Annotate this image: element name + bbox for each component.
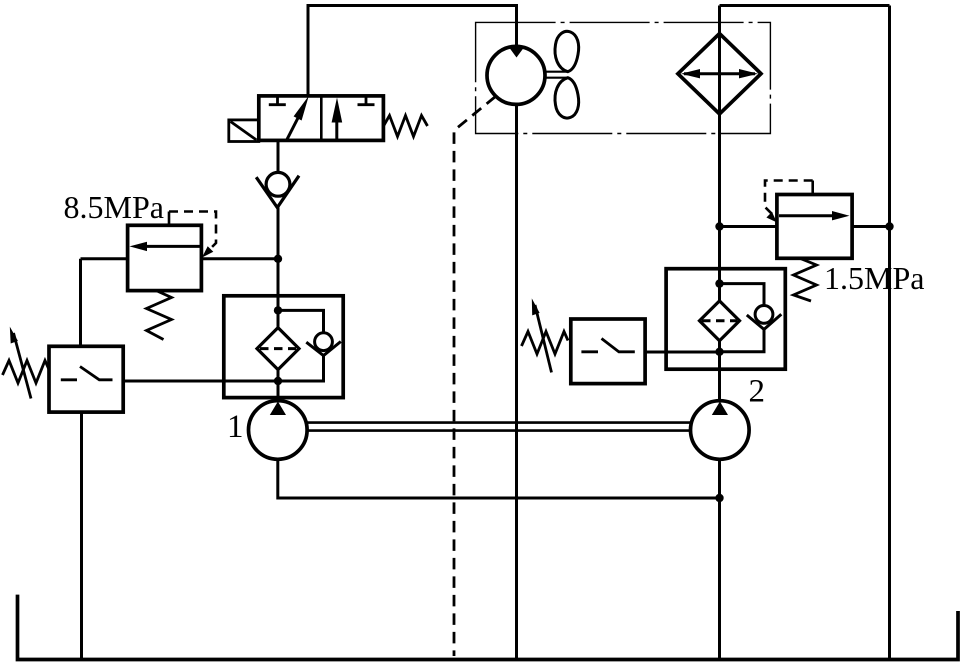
pressure switch PS1 contacts <box>61 367 113 380</box>
wire RV2 left port <box>720 225 777 228</box>
valve V1 solenoid <box>229 120 259 142</box>
junction F (filter F2 top) <box>715 279 723 287</box>
motor M (fan drive) <box>487 46 545 104</box>
svg-text:1: 1 <box>227 409 244 445</box>
filter F2 bypass check valve <box>755 306 773 324</box>
wire RV2 right port to frame <box>852 225 889 228</box>
wire pump1 suction <box>278 459 720 498</box>
filter F2 bypass branch wire <box>720 284 765 306</box>
junction G (filter F2 bottom) <box>715 348 723 356</box>
pressure switch PS2 contacts <box>581 339 634 352</box>
junction C (filter F1 bottom) <box>274 377 282 385</box>
wire RV1 right port to junction A <box>201 257 278 260</box>
pressure switch PS2 adjust arrow <box>535 305 552 372</box>
relief valve RV2 body <box>777 195 852 259</box>
svg-text:1.5MPa: 1.5MPa <box>824 260 924 296</box>
wire PS2 right to filter F2 junction <box>645 351 719 354</box>
filter F1 bypass check valve <box>315 333 333 351</box>
wire top-right (cooler top to right frame) <box>720 4 890 7</box>
junction B (filter F1 top) <box>274 306 282 314</box>
relief valve RV2 arrow <box>779 214 835 217</box>
pressure switch PS2 spring <box>522 332 569 355</box>
svg-text:2: 2 <box>749 374 766 410</box>
enclosure chain-line box <box>476 22 771 133</box>
directional valve V1 body <box>259 96 384 140</box>
fan propeller <box>555 31 579 71</box>
pump 2 <box>691 401 750 460</box>
filter F1 bypass branch wire <box>278 310 324 333</box>
tank <box>18 595 959 660</box>
wire valve to check valve <box>277 140 280 172</box>
wire check valve to junction <box>277 208 280 328</box>
relief valve RV1 pilot line (dashed) <box>168 212 171 226</box>
valve V1 left-cell flow arrow <box>287 112 301 140</box>
junction A (relief tee) <box>274 255 282 263</box>
junction D (RV2 tee on cooler line) <box>715 222 723 230</box>
wire cooler vertical <box>718 6 721 301</box>
junction E (right frame) <box>885 222 893 230</box>
wire filter F2 vertical <box>718 339 721 401</box>
filter F2 element <box>700 301 740 341</box>
relief valve RV1 body <box>128 225 202 290</box>
valve V1 right-cell flow arrow <box>335 118 338 140</box>
relief valve RV1 arrow <box>143 245 201 248</box>
valve V1 return spring <box>384 116 428 137</box>
filter unit F2 box <box>666 269 785 370</box>
wire right frame vertical <box>888 6 891 660</box>
pressure switch PS1 adjust arrow <box>14 333 32 399</box>
relief valve RV1 spring <box>147 291 172 340</box>
drive shaft pumps 1-2 <box>307 423 691 431</box>
wire PS1 right to filter junction <box>123 380 278 383</box>
wire PS1 down to tank <box>80 412 83 659</box>
cooler (heat exchanger) <box>678 34 761 114</box>
wire RV1 left port <box>81 257 128 260</box>
junction H (pump suction tee) <box>715 494 723 502</box>
wire filter F1 to pump 1 <box>277 370 280 402</box>
svg-text:8.5MPa: 8.5MPa <box>64 189 164 225</box>
filter F1 bypass lower wire <box>278 356 324 381</box>
fan shaft <box>545 72 567 78</box>
filter unit F1 box <box>224 296 343 398</box>
wire RV1 left down to pressure switch <box>79 259 82 347</box>
wire motor drain to tank <box>515 105 518 660</box>
wire pump2 suction to tank <box>718 459 721 659</box>
pressure switch PS1 box <box>49 346 123 412</box>
relief valve RV2 spring <box>794 258 817 301</box>
relief valve RV2 pilot line (dashed) <box>811 181 814 195</box>
wire top-left (valve top to motor) <box>308 6 517 97</box>
valve V1 left-cell closed-port T <box>269 96 286 105</box>
pump 1 <box>248 401 307 460</box>
valve V1 right-cell closed-port T <box>358 96 375 105</box>
filter F1 element <box>257 328 299 370</box>
pressure switch PS2 box <box>571 319 645 384</box>
check valve C1 (below valve) <box>266 172 290 196</box>
filter F2 bypass lower wire <box>720 329 765 351</box>
pressure switch PS1 spring <box>3 361 50 384</box>
drain line (dashed) from motor <box>454 97 496 657</box>
